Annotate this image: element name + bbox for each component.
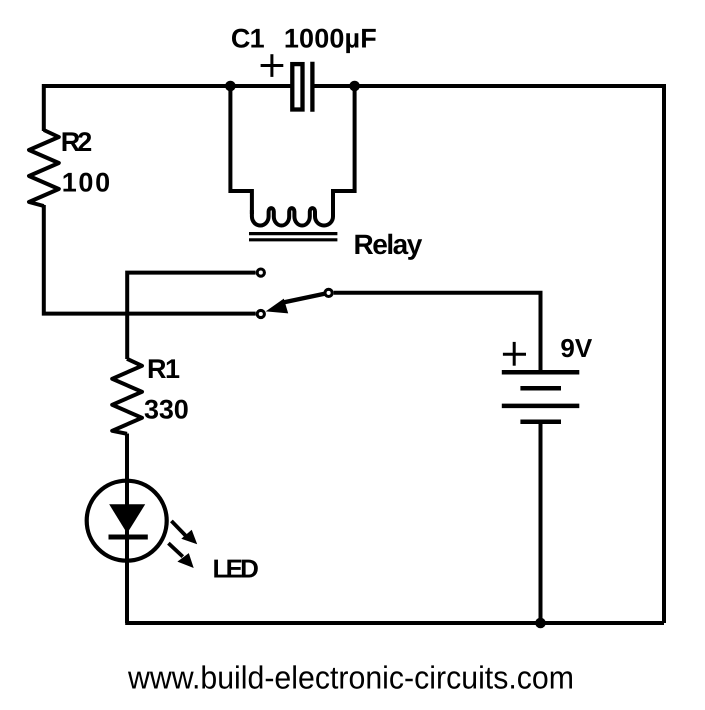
- capacitor C1 positive plate (hollow rectangle): [292, 64, 302, 109]
- svg-text:R1: R1: [147, 354, 180, 384]
- wire through LED to bottom rail: [125, 478, 129, 623]
- node junction dot on top bus left of C1: [225, 81, 236, 92]
- relay coil windings: [252, 208, 333, 225]
- LED anode triangle: [109, 504, 145, 533]
- svg-text:C1: C1: [231, 23, 265, 53]
- relay coil left branch wire: [230, 86, 252, 214]
- resistor R2: [29, 130, 59, 206]
- relay coil right branch wire: [333, 86, 355, 214]
- capacitor C1 polarity + sign: [261, 54, 284, 77]
- wire top-right segment + right rail: [312, 86, 664, 623]
- switch lower throw contact: [257, 310, 264, 317]
- battery BT1 plate 2 (short): [520, 386, 561, 391]
- battery polarity + sign: [503, 342, 526, 366]
- node junction dot battery to bottom rail: [535, 618, 546, 629]
- battery BT1 plate 3 (long): [502, 404, 580, 409]
- LED light arrow 1: [171, 521, 197, 544]
- svg-text:9V: 9V: [560, 333, 592, 363]
- svg-text:330: 330: [144, 394, 189, 424]
- switch blade (relay contact arm): [283, 293, 329, 303]
- wire bottom rail: [127, 621, 664, 623]
- switch blade arrowhead: [266, 299, 289, 314]
- svg-text:1000µF: 1000µF: [284, 23, 377, 53]
- switch common pivot contact: [325, 289, 332, 296]
- LED light arrow 2: [168, 543, 193, 568]
- wire left rail lower + wire to lower switch contact: [44, 205, 256, 314]
- svg-text:100: 100: [62, 168, 110, 198]
- relay core line 2: [249, 238, 337, 241]
- relay core line 1: [249, 232, 337, 235]
- LED D1 body circle: [87, 481, 167, 561]
- switch upper throw contact: [257, 269, 264, 276]
- svg-text:www.build-electronic-circuits.: www.build-electronic-circuits.com: [127, 659, 574, 695]
- wire top-left segment (left rail top + top bus to C1): [44, 86, 291, 131]
- wire upper switch contact branch (down to R1): [127, 273, 255, 359]
- resistor R1: [112, 359, 142, 434]
- wire R1 to LED (enters LED circle): [125, 434, 129, 481]
- svg-text:Relay: Relay: [354, 229, 423, 260]
- node junction dot on top bus right of C1: [349, 81, 360, 92]
- LED cathode bar: [109, 535, 148, 540]
- wire battery - to bottom rail: [539, 422, 543, 623]
- wire switch common to battery +: [334, 293, 541, 372]
- battery BT1 plate 1 (long, +): [502, 370, 580, 375]
- svg-text:LED: LED: [213, 554, 259, 584]
- battery BT1 plate 4 (short, -): [520, 419, 561, 424]
- svg-text:R2: R2: [61, 127, 93, 157]
- capacitor C1 negative plate (bar): [310, 62, 314, 112]
